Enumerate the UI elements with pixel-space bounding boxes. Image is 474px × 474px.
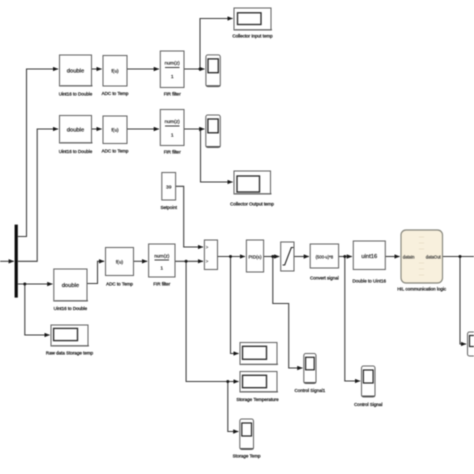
svg-text:double: double (62, 283, 79, 289)
node: row1 FIR output junction (199, 68, 202, 71)
display: Collector Input temp (232, 8, 273, 39)
demux bar (15, 225, 18, 298)
svg-text:FIR filter: FIR filter (164, 92, 182, 97)
block: Setpoint (39) (160, 173, 177, 211)
scope: right-edge partial (468, 332, 474, 356)
svg-text:HIL communication logic: HIL communication logic (397, 287, 447, 292)
wire: branch down to Raw data display (25, 284, 50, 335)
scope (row1, unnamed) (206, 55, 220, 87)
block: Uint16 to Double (row1) (59, 55, 93, 97)
wire: row1 FIR to scope (184, 68, 205, 70)
svg-text:Raw data Storage temp: Raw data Storage temp (46, 351, 94, 356)
block: FIR filter (row3) (149, 244, 175, 287)
wire: row2 f(u) to FIR (127, 128, 159, 130)
svg-text:1: 1 (171, 74, 174, 80)
wire: saturation to convert signal (294, 256, 309, 258)
block: FIR filter (row1) (160, 51, 184, 97)
svg-text:Uint16 to Double: Uint16 to Double (54, 306, 88, 311)
wire: sum output to PID (218, 256, 246, 258)
display: Raw data Storage temp (46, 325, 94, 356)
svg-text:(500-u)*8: (500-u)*8 (316, 254, 334, 259)
wire: uint16 to HIL dataIn (385, 256, 399, 258)
wire: row2 double to f(u) (92, 128, 102, 130)
svg-text:f(u): f(u) (111, 128, 119, 134)
svg-text:1: 1 (160, 266, 163, 272)
svg-text:Collector Output temp: Collector Output temp (230, 202, 274, 207)
wire: HIL dataOut to right edge (443, 256, 474, 258)
node: HIL output junction (459, 255, 462, 258)
wire: setpoint to sum top input (176, 186, 203, 247)
wire: convert signal to uint16 (339, 256, 352, 258)
scope: Control Signal1 (295, 354, 326, 394)
svg-text:num(z): num(z) (154, 254, 170, 260)
node: PID output junction (271, 255, 274, 258)
svg-text:ADC to Temp: ADC to Temp (102, 149, 129, 154)
wire: convert branch down to Control Signal scope (345, 257, 360, 382)
node: convert output junction (343, 255, 346, 258)
wire: branch down to Storage Temp scope (228, 382, 239, 432)
svg-text:num(z): num(z) (165, 119, 181, 125)
svg-text:dataIn: dataIn (403, 254, 415, 259)
svg-text:f(u): f(u) (111, 69, 119, 75)
svg-text:Convert signal: Convert signal (310, 276, 339, 281)
wire: row2 branch down to Collector Output temp display (201, 129, 233, 182)
wire: demux out2 up to row2 (18, 129, 58, 261)
svg-text:uint16: uint16 (361, 254, 377, 260)
block: Uint16 to Double (row3) (54, 269, 88, 311)
wire: row1 f(u) to FIR (127, 68, 159, 70)
svg-text:Control Signal: Control Signal (354, 402, 382, 407)
block: sum / comparator (204, 240, 217, 270)
block: FIR filter (row2) (160, 110, 184, 155)
wire: PID output to saturation (264, 256, 280, 258)
node: row2 FIR output junction (199, 128, 202, 131)
svg-text:f(u): f(u) (116, 260, 124, 266)
block: HIL communication logic (397, 230, 447, 292)
svg-text:Uint16 to Double: Uint16 to Double (59, 149, 93, 154)
svg-text:ADC to Temp: ADC to Temp (102, 91, 129, 96)
wire: branch down to right-edge scope (460, 257, 466, 345)
wire: double row3 up to f(u) row3 (87, 261, 104, 283)
svg-text:Uint16 to Double: Uint16 to Double (59, 92, 93, 97)
wire: FIR row3 branch down to Storage Temperature display 2 (186, 261, 239, 381)
node: sum output junction (229, 255, 232, 258)
wire: input into demux from left edge (0, 260, 14, 262)
svg-text:PID(s): PID(s) (248, 255, 261, 260)
scope (row2, unnamed) (206, 115, 221, 148)
wire: demux out3 to double row3 (18, 283, 52, 285)
svg-text:Collector Input temp: Collector Input temp (232, 34, 273, 39)
block: ADC to Temp (row3) (106, 248, 134, 287)
block: saturation (281, 242, 294, 271)
wire: FIR row3 to sum bottom input (175, 260, 203, 262)
svg-text:num(z): num(z) (165, 61, 181, 67)
svg-text:double: double (67, 69, 84, 75)
svg-text:FIR filter: FIR filter (164, 150, 182, 155)
node: Storage display2 junction (226, 380, 229, 383)
display: Collector Output temp (230, 171, 274, 207)
wire: row1 double to f(u) (92, 68, 102, 70)
svg-text:39: 39 (166, 185, 172, 191)
wire: f(u) row3 to FIR row3 (134, 260, 148, 262)
node: demux out3 junction (23, 283, 26, 286)
block: Double to Uint16 (353, 241, 387, 284)
svg-text:Double to Uint16: Double to Uint16 (353, 279, 387, 284)
block: ADC to Temp (row2) (102, 116, 129, 154)
svg-text:FIR filter: FIR filter (153, 282, 171, 287)
svg-text:1: 1 (171, 133, 174, 139)
wire: PID branch down to Control Signal1 scope (273, 257, 303, 369)
wire: row2 FIR to scope (184, 128, 204, 130)
svg-text:Storage Temperature: Storage Temperature (236, 397, 279, 402)
svg-text:double: double (67, 128, 84, 134)
wire: sum output branch down to Storage Temperature display 1 (231, 257, 239, 354)
svg-text:Control Signal1: Control Signal1 (295, 388, 326, 393)
wire: demux out1 up to row1 (18, 69, 58, 237)
block: PID(s) (246, 240, 263, 272)
wire: row1 branch up to Collector Input temp display (200, 19, 233, 70)
block: ADC to Temp (row1) (102, 56, 129, 97)
svg-text:Setpoint: Setpoint (160, 205, 177, 210)
display: Storage Temperature (bottom) (236, 372, 279, 403)
display: Storage Temperature (top) (240, 343, 278, 365)
scope: Storage Temp (233, 419, 261, 459)
svg-text:dataOut: dataOut (426, 254, 442, 259)
scope: Control Signal (354, 366, 382, 407)
node: FIR row3 output junction (185, 260, 188, 263)
block: Convert signal (500-u)*8 (310, 244, 339, 281)
svg-text:Storage Temp: Storage Temp (233, 454, 261, 459)
svg-text:ADC to Temp: ADC to Temp (106, 282, 133, 287)
block: Uint16 to Double (row2) (59, 116, 93, 155)
